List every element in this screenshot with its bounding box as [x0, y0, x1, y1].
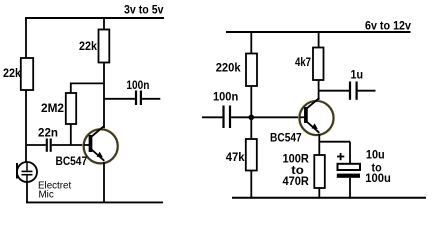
wire: down to R3 body [70, 83, 72, 94]
svg-text:6v to 12v: 6v to 12v [365, 21, 412, 33]
wire: collector to C2 [104, 98, 135, 100]
wire: C5 bottom to 0v rail [349, 178, 351, 199]
resistor R6 4k7 (collector load) [313, 48, 324, 81]
label: C5 polarity plus sign [337, 156, 344, 158]
transistor Q2 emitter arrowhead [312, 123, 318, 129]
transistor Q1 BC547 outer highlight ring [83, 128, 119, 164]
transistor Q2 emitter stroke [306, 121, 319, 133]
wire: R6 bottom down to Q2 collector [318, 80, 320, 102]
wire: rail down to R1 top [25, 17, 27, 58]
transistor Q2 base bar [304, 107, 308, 123]
svg-text:22k: 22k [79, 41, 98, 53]
wire: R5 bottom to 0v rail [250, 171, 252, 199]
wire: C1 to base of Q1 [52, 144, 90, 146]
svg-text:100n: 100n [213, 91, 238, 103]
resistor R7 100R-470R (emitter) [314, 155, 325, 188]
wire: feedback link from collector to R3 top [71, 82, 105, 84]
transistor Q2 BC547 outer highlight ring [299, 100, 335, 136]
wire: R3 bottom to base node [70, 124, 72, 145]
capacitor C3 100n plate 1 [222, 106, 224, 129]
svg-text:470R: 470R [283, 176, 310, 188]
wire: C3 to Q2 base [231, 116, 304, 118]
microphone MIC1 internal plate 2 [22, 174, 33, 176]
wire: collector to C4 [319, 90, 349, 92]
svg-text:22k: 22k [3, 68, 22, 80]
wire: right 0v rail [232, 197, 426, 199]
microphone MIC1 internal top lead [26, 162, 28, 171]
resistor R4 220k (upper bias) [246, 54, 257, 87]
resistor R2 22k (collector load) [99, 30, 110, 63]
wire: mic bottom to 0v rail [26, 182, 28, 202]
wire: rail down to R6 top [318, 31, 320, 48]
capacitor C1 22n plate 1 [46, 139, 48, 152]
wire: Q1 emitter to 0v rail [103, 162, 105, 203]
resistor R5 47k (lower bias) [246, 139, 257, 171]
wire: Q2 base lead inside circle [300, 116, 305, 118]
wire: Q2 emitter down to emitter node [318, 134, 320, 155]
capacitor C2 100n plate 1 [135, 91, 137, 106]
transistor Q2 collector stroke [306, 98, 319, 109]
svg-text:1u: 1u [351, 69, 364, 81]
microphone MIC1 electret body circle [17, 162, 37, 182]
wire: down to C5 top [349, 142, 351, 164]
capacitor C5 10u-100u electrolytic negative plate [337, 174, 360, 178]
transistor Q1 base bar [89, 135, 93, 152]
wire: C2 output stub [142, 98, 160, 100]
wire: emitter node to C5 branch [319, 141, 350, 143]
svg-text:2M2: 2M2 [41, 103, 64, 115]
svg-text:Mic: Mic [39, 190, 54, 201]
wire: input stub to C3 [202, 116, 222, 118]
transistor Q1 BC547 body circle [84, 129, 118, 163]
capacitor C2 100n plate 2 [140, 91, 142, 106]
wire: rail down to R4 top [250, 31, 252, 54]
wire: R4 bottom to base node [250, 86, 252, 139]
wire: rail down to R2 top [103, 17, 105, 30]
svg-text:47k: 47k [226, 152, 245, 164]
capacitor C4 1u plate 2 [356, 82, 358, 100]
wire: left V+ rail (3v-5v) [25, 17, 164, 19]
transistor Q1 emitter arrowhead [97, 152, 103, 158]
svg-text:BC547: BC547 [56, 156, 88, 168]
svg-text:to: to [291, 165, 304, 177]
resistor R3 2M2 (feedback bias) [66, 93, 76, 124]
capacitor C3 100n plate 2 [229, 106, 231, 129]
wire: R7 bottom to 0v rail [318, 188, 320, 199]
svg-text:100n: 100n [126, 80, 149, 92]
wire: right V+ rail (6v-12v) [226, 31, 411, 33]
node: base junction dot [249, 115, 255, 121]
svg-text:3v to 5v: 3v to 5v [124, 4, 164, 16]
wire: left 0v rail [26, 201, 163, 203]
wire: base feed to C1 [26, 144, 46, 146]
transistor Q1 collector stroke [91, 126, 104, 137]
capacitor C1 22n plate 2 [50, 139, 52, 152]
svg-text:BC547: BC547 [270, 133, 302, 145]
capacitor C5 10u-100u electrolytic positive plate [338, 164, 361, 170]
microphone MIC1 left case line [16, 163, 18, 179]
microphone MIC1 internal bottom lead [26, 176, 28, 183]
svg-text:100R: 100R [283, 154, 310, 166]
resistor R1 22k (mic load) [21, 58, 33, 90]
transistor Q2 BC547 body circle [300, 101, 334, 135]
svg-text:4k7: 4k7 [295, 57, 311, 69]
svg-text:22n: 22n [38, 127, 58, 139]
wire: Q1 base lead inside circle [84, 144, 90, 146]
wire: R2 bottom down to Q1 collector [103, 63, 105, 131]
svg-text:100u: 100u [365, 173, 391, 185]
wire: C4 output stub [358, 90, 376, 92]
transistor Q1 emitter stroke [91, 149, 104, 161]
capacitor C4 1u plate 1 [349, 82, 351, 100]
microphone MIC1 internal plate 1 [22, 170, 33, 172]
wire: R1 bottom to mic node [25, 90, 27, 162]
svg-text:10u: 10u [366, 149, 385, 161]
svg-text:220k: 220k [216, 62, 241, 74]
